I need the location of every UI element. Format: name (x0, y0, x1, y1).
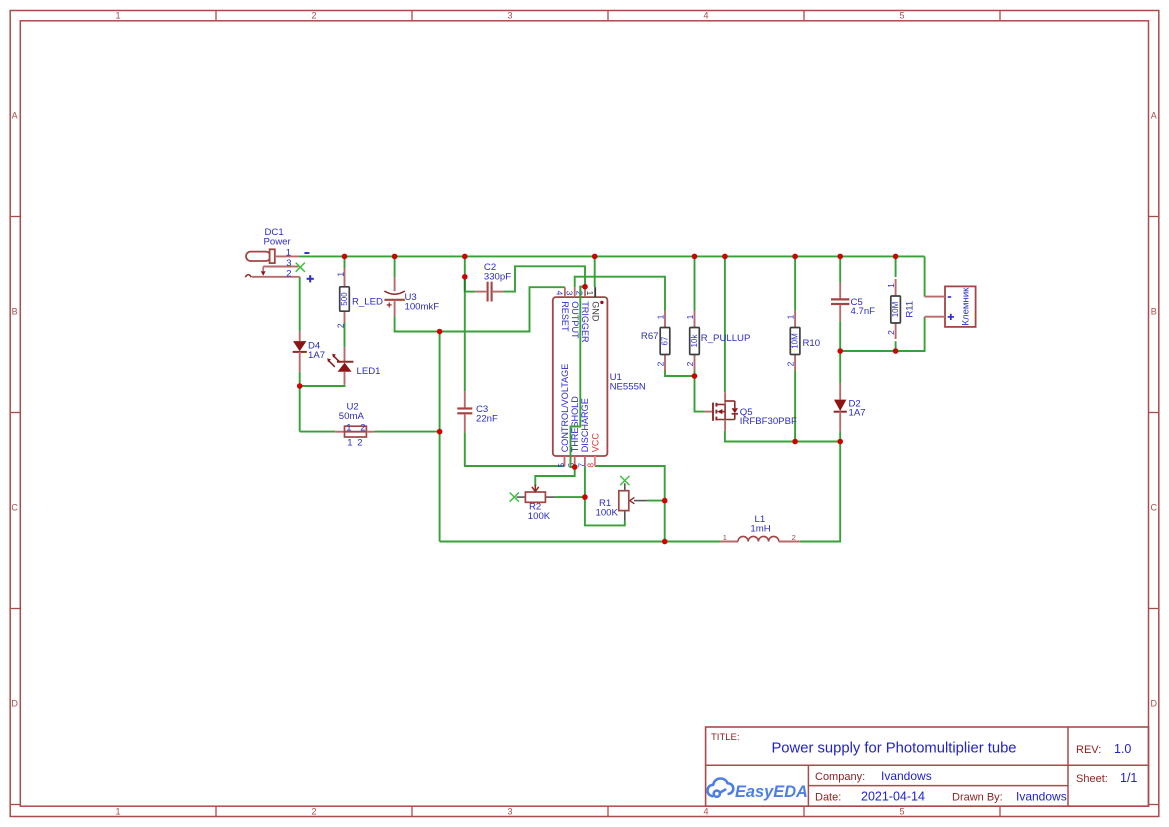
resistor R10 (790, 311, 800, 371)
svg-text:3: 3 (564, 291, 574, 296)
svg-text:500: 500 (340, 292, 349, 306)
svg-text:Company:: Company: (815, 771, 865, 783)
svg-text:R_LED: R_LED (352, 296, 383, 307)
resistor R67 (660, 311, 670, 371)
junction (893, 348, 899, 354)
wire - rail to R11 (895, 256, 897, 277)
wire - lower net between C5 and R11 (840, 350, 924, 352)
svg-text:VCC: VCC (591, 433, 601, 453)
svg-text:1: 1 (347, 438, 352, 449)
svg-text:2021-04-14: 2021-04-14 (861, 789, 925, 803)
svg-text:LED1: LED1 (357, 366, 381, 377)
wire - rail to C5 (839, 256, 841, 282)
svg-text:RESET: RESET (560, 301, 570, 332)
svg-text:C: C (1151, 503, 1158, 513)
junction (792, 439, 798, 445)
svg-text:R11: R11 (905, 301, 916, 318)
svg-text:3: 3 (286, 258, 291, 269)
resistor R_LED (340, 268, 350, 323)
junction (722, 254, 728, 260)
svg-text:1: 1 (335, 272, 345, 277)
potentiometer R2 (517, 485, 556, 503)
wire - R10 bottom (794, 371, 796, 442)
svg-text:100K: 100K (596, 508, 619, 519)
wire - R_LED to LED1 (344, 323, 346, 348)
svg-text:A: A (1151, 110, 1157, 120)
svg-text:4: 4 (703, 807, 708, 817)
resistor R11 (891, 279, 901, 339)
wire - junction to fuse U2 (300, 431, 336, 433)
op-amp timer U1 NE555N (553, 287, 608, 466)
wire - R67 bottom to R_PULLUP bottom (665, 371, 695, 377)
svg-text:22nF: 22nF (476, 414, 498, 425)
wire - R1 wiper to VCC net (647, 500, 664, 502)
junction (692, 254, 698, 260)
junction (837, 348, 843, 354)
svg-text:GND: GND (591, 301, 601, 322)
wire - rail to R_LED (344, 256, 346, 268)
svg-text:4.7nF: 4.7nF (851, 306, 876, 317)
svg-text:REV:: REV: (1076, 744, 1101, 756)
potentiometer R1 (619, 483, 648, 521)
svg-text:2: 2 (311, 11, 316, 21)
svg-text:2: 2 (786, 361, 796, 366)
svg-text:B: B (12, 307, 18, 317)
svg-text:Drawn By:: Drawn By: (952, 791, 1003, 803)
wire - fuse U2 to node (375, 431, 440, 433)
svg-text:100K: 100K (528, 511, 551, 522)
junction (342, 254, 348, 260)
fuse U2 (335, 426, 374, 437)
svg-text:1A7: 1A7 (308, 350, 325, 361)
wire - TRIGGER to THRESHOLD through chip (571, 287, 586, 467)
junction (437, 429, 443, 435)
svg-text:1/1: 1/1 (1120, 771, 1137, 785)
svg-text:R_PULLUP: R_PULLUP (701, 333, 751, 344)
junction (837, 254, 843, 260)
svg-text:TRIGGER: TRIGGER (580, 301, 590, 343)
junction (662, 498, 668, 504)
svg-text:Ivandows: Ivandows (1016, 789, 1067, 803)
capacitor C5 (831, 283, 849, 322)
svg-text:10M: 10M (791, 333, 800, 349)
wire - D2 cathode to bottom net (839, 432, 841, 442)
svg-text:2: 2 (360, 423, 365, 434)
svg-text:67: 67 (661, 336, 670, 345)
svg-text:Sheet:: Sheet: (1076, 773, 1108, 785)
svg-text:NE555N: NE555N (610, 381, 646, 392)
LED LED1 (327, 347, 353, 385)
wire - D4 cathode to LED1 junction (299, 372, 301, 432)
svg-text:B: B (1151, 307, 1157, 317)
capacitor C2 (475, 282, 503, 302)
connector DC1 barrel jack (245, 249, 299, 277)
svg-text:1: 1 (346, 423, 351, 434)
svg-text:1: 1 (585, 291, 595, 296)
svg-text:4: 4 (703, 11, 708, 21)
wire - rail to Q5 source (724, 256, 726, 392)
junction (837, 439, 843, 445)
svg-text:50mA: 50mA (339, 411, 365, 422)
capacitor U3 polarized (384, 277, 404, 316)
svg-text:2: 2 (655, 361, 665, 366)
svg-text:1A7: 1A7 (849, 408, 866, 419)
junction (592, 254, 598, 260)
junction (462, 274, 468, 280)
plus polarity label (307, 278, 314, 280)
wire - rail to R10 (794, 256, 796, 310)
wire - rail to R_PULLUP (694, 256, 696, 310)
connector Клемник terminal block (925, 286, 976, 327)
junction (692, 373, 698, 379)
wire - C5 bottom (839, 321, 841, 351)
plus polarity label (948, 316, 954, 318)
svg-text:A: A (12, 110, 18, 120)
wire - THRESHOLD through-chip segment over body (571, 287, 586, 467)
svg-text:2: 2 (685, 361, 695, 366)
minus polarity label (948, 296, 951, 298)
wire - node vertical branch (439, 332, 441, 542)
svg-text:THRESHOLD: THRESHOLD (570, 396, 580, 453)
svg-text:4: 4 (555, 291, 565, 296)
wire - C2 left (465, 291, 476, 293)
junction (662, 539, 668, 545)
svg-text:1: 1 (786, 314, 796, 319)
inductor L1 (721, 536, 800, 541)
svg-text:3: 3 (507, 807, 512, 817)
svg-text:5: 5 (556, 463, 566, 468)
junction (792, 254, 798, 260)
resistor R_PULLUP (690, 311, 700, 371)
svg-text:EasyEDA: EasyEDA (735, 783, 808, 801)
svg-text:2: 2 (286, 268, 291, 279)
svg-text:DISCHARGE: DISCHARGE (580, 398, 590, 452)
diode D2 (834, 384, 847, 432)
wire - GND pin to rail (594, 256, 596, 287)
junction (462, 254, 468, 260)
svg-text:OUTPUT: OUTPUT (570, 301, 580, 339)
wire - R11 bottom (895, 341, 897, 351)
wire - rail branch to C2/C3 (464, 256, 466, 391)
diode D4 (293, 331, 307, 372)
svg-text:R10: R10 (803, 338, 821, 349)
junction (582, 284, 588, 290)
svg-text:D: D (11, 699, 18, 709)
svg-text:TITLE:: TITLE: (711, 732, 740, 743)
wire - U3 minus to RESET pin (395, 287, 565, 331)
wire - R_PULLUP bottom to Q5 gate (695, 371, 705, 412)
minus polarity label (304, 252, 309, 254)
svg-text:1: 1 (115, 11, 120, 21)
wire - OUTPUT pin 3 to R67 (575, 277, 665, 311)
wire - THRESHOLD junction to R2 wiper (535, 467, 574, 486)
wire - rail to U3 (394, 256, 396, 277)
junction (572, 464, 578, 470)
svg-text:5: 5 (899, 11, 904, 21)
svg-text:3: 3 (507, 11, 512, 21)
wire - C2 right loop to TRIGGER (503, 266, 585, 291)
svg-text:Power: Power (264, 237, 292, 248)
wire - overlap segment (464, 277, 466, 292)
junction (437, 329, 443, 335)
no-connect X on DC1 pin 3 (296, 263, 305, 272)
svg-text:R67: R67 (641, 331, 659, 342)
svg-text:2: 2 (311, 807, 316, 817)
wire - C3 to CONTROL pin 5 (465, 432, 565, 466)
junction (297, 383, 303, 389)
wire - LED1 cathode to junction (300, 385, 345, 386)
svg-text:Ivandows: Ivandows (881, 769, 932, 783)
capacitor C3 (457, 391, 472, 432)
junction (392, 254, 398, 260)
svg-text:1: 1 (286, 248, 291, 259)
svg-text:Power supply for Photomultipli: Power supply for Photomultiplier tube (771, 740, 1016, 756)
no-connect X on R2 pin 1 (510, 493, 519, 502)
svg-text:1: 1 (886, 283, 896, 288)
svg-text:330pF: 330pF (484, 271, 511, 282)
svg-text:1: 1 (655, 314, 665, 319)
svg-text:IRFBF30PBF: IRFBF30PBF (740, 416, 797, 427)
svg-text:1.0: 1.0 (1114, 742, 1131, 756)
wire - L1 to D2 branch (800, 442, 841, 542)
transistor Q5 MOSFET (704, 392, 738, 431)
wire - D2 anode net (839, 351, 841, 384)
svg-text:1mH: 1mH (750, 523, 770, 534)
svg-text:Клемник: Клемник (960, 287, 971, 326)
svg-text:10M: 10M (891, 301, 900, 317)
svg-text:2: 2 (335, 323, 345, 328)
svg-text:10k: 10k (690, 334, 699, 348)
svg-text:100mkF: 100mkF (405, 301, 440, 312)
svg-text:2: 2 (792, 533, 796, 542)
wire - top power rail (300, 255, 925, 257)
svg-text:8: 8 (585, 463, 595, 468)
svg-text:C: C (11, 503, 18, 513)
wire - DC1 pin2 down to D4 (299, 277, 301, 331)
wire - DISCHARGE pin 7 to R1 bottom (585, 466, 625, 525)
svg-text:2: 2 (357, 438, 362, 449)
svg-text:+: + (386, 301, 392, 312)
svg-text:1: 1 (685, 314, 695, 319)
svg-text:Date:: Date: (815, 791, 841, 803)
wire - R2 to DISCHARGE net (555, 496, 585, 498)
junction (582, 494, 588, 500)
svg-text:1: 1 (723, 533, 727, 542)
junction (893, 254, 899, 260)
wire - VCC pin 8 net (595, 466, 665, 542)
svg-text:2: 2 (886, 330, 896, 335)
wire - rail to connector minus pin (924, 256, 926, 296)
wire - Q5 drain to bottom net (725, 431, 840, 442)
wire - connector plus pin to lower net (840, 317, 924, 351)
no-connect X on R1 pin 1 (620, 476, 629, 485)
svg-text:CONTROL/VOLTAGE: CONTROL/VOLTAGE (560, 364, 570, 453)
svg-text:1: 1 (115, 807, 120, 817)
svg-text:D: D (1151, 699, 1158, 709)
wire - bottom rail left of L1 (440, 541, 721, 543)
svg-text:5: 5 (899, 807, 904, 817)
